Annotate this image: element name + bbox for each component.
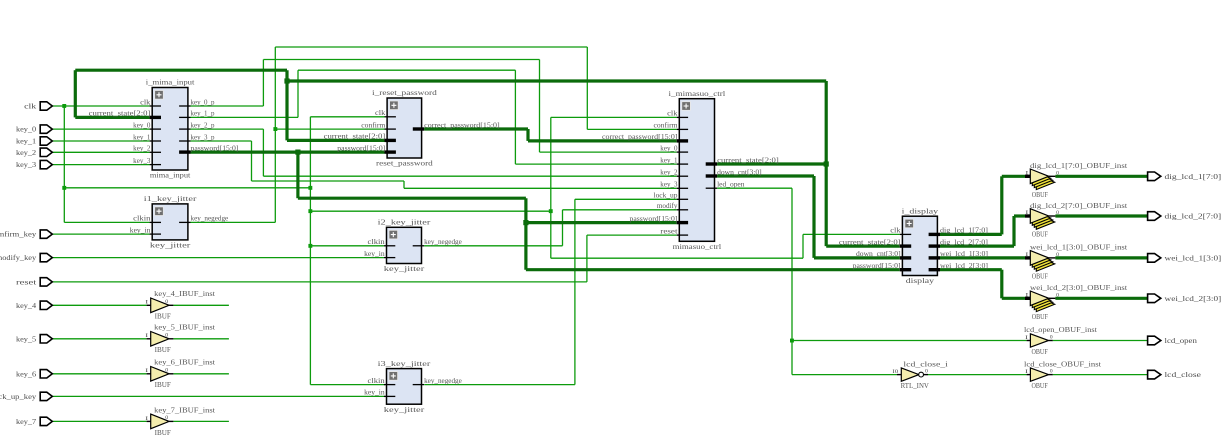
input port key_6 — [16, 369, 52, 378]
wire down_cnt from mimasuo — [717, 174, 814, 177]
svg-text:i1_key_jitter: i1_key_jitter — [144, 194, 197, 203]
wire key_2_p from mima_input — [191, 128, 264, 130]
svg-text:OBUF: OBUF — [1032, 190, 1049, 199]
svg-text:key_6_IBUF_inst: key_6_IBUF_inst — [154, 358, 216, 367]
junction clk x=310 y=187.8 — [308, 186, 312, 190]
wire led_open to lcd_open OBUF — [792, 340, 1027, 342]
wire key_0_p riser — [262, 60, 264, 107]
wire correct_password jog — [526, 129, 529, 141]
junction clk x=64 y=187.8 — [62, 186, 66, 190]
wire dig_lcd_2 OBUF to port — [1055, 214, 1147, 217]
svg-text:key_0: key_0 — [16, 125, 36, 134]
wire lcd_close_i out to OBUF — [928, 374, 1027, 376]
wire lock_up from i3.key_negedge — [424, 384, 575, 386]
pin i_mimasuo_ctrl.key_3 — [660, 181, 688, 189]
wire key_3_p from mima_input — [191, 140, 252, 142]
wire confirm_key to i1.key_in — [52, 233, 149, 235]
svg-text:clkin: clkin — [368, 377, 386, 385]
module i2_key_jitter (key_jitter) — [378, 218, 431, 274]
wire current_state from mimasuo — [717, 162, 826, 165]
wire current_state drop x=826 — [825, 81, 828, 246]
wire current_state riser x=75 — [74, 70, 77, 117]
wire dig_lcd_2 from display — [940, 245, 1014, 248]
pin i2_key_jitter.key_negedge — [413, 238, 462, 246]
buffer dig_lcd_2_OBUF (OBUF x8/x4 stack) — [1025, 201, 1128, 239]
svg-text:dig_lcd_1[7:0]: dig_lcd_1[7:0] — [940, 227, 988, 235]
svg-text:correct_password[15:0]: correct_password[15:0] — [602, 133, 678, 141]
svg-text:wei_lcd_2[3:0]_OBUF_inst: wei_lcd_2[3:0]_OBUF_inst — [1030, 283, 1128, 292]
wire clk riser at x=64 — [63, 106, 65, 222]
svg-text:confirm: confirm — [361, 121, 386, 129]
svg-text:0: 0 — [165, 367, 168, 373]
svg-text:clk: clk — [375, 109, 386, 117]
buffer lcd_open_OBUF (OBUF) — [1024, 325, 1098, 356]
svg-text:I0: I0 — [892, 369, 898, 375]
pin i_mimasuo_ctrl.lock_up — [654, 192, 689, 200]
wire modify to mimasuo.modify — [563, 209, 677, 211]
pin i_mima_input.key_1 — [133, 133, 161, 141]
wire current_state to display — [826, 245, 900, 248]
wire key port to IBUF — [52, 338, 146, 340]
buffer key_4_IBUF_inst (IBUF) — [145, 289, 216, 321]
wire password mima_input to reset_password — [191, 151, 385, 154]
wire clk riser at x=551 — [550, 117, 552, 258]
wire modify from i2.key_negedge — [424, 245, 562, 247]
svg-text:key_2_p: key_2_p — [191, 121, 215, 129]
wire password run y=198 — [298, 197, 526, 200]
wire wei_lcd_2 from display — [940, 268, 1002, 271]
svg-text:key_2: key_2 — [16, 148, 36, 157]
pin i_reset_password.password[15:0] — [337, 144, 396, 152]
svg-text:0: 0 — [165, 332, 168, 338]
wire key_0_p from mima_input — [191, 105, 264, 107]
wire key_1_p to mimasuo.key_1 — [515, 163, 676, 165]
pin i_reset_password.correct_password[15:0] — [413, 121, 500, 129]
junction clk x=310 y=245.8 — [308, 244, 312, 248]
svg-text:clk: clk — [667, 110, 678, 118]
wire current_state to mima_input — [75, 116, 149, 119]
wire down_cnt to display — [814, 256, 900, 259]
svg-text:I: I — [1025, 292, 1028, 298]
svg-text:clk: clk — [140, 98, 151, 106]
svg-text:current_state[2:0]: current_state[2:0] — [324, 133, 386, 141]
wire key_3_p run — [252, 180, 405, 182]
wire key_3 port to mima_input — [52, 164, 149, 166]
wire current_state run B y=81 — [287, 79, 826, 82]
svg-text:key_3: key_3 — [660, 181, 678, 189]
svg-text:key_7_IBUF_inst: key_7_IBUF_inst — [154, 405, 216, 414]
wire clk branch y=258.2 — [551, 257, 803, 259]
buffer wei_lcd_2_OBUF (OBUF x8/x4 stack) — [1025, 283, 1128, 321]
pin i_mimasuo_ctrl.current_state[2:0] — [706, 156, 779, 164]
wire wei_lcd_1 from display — [940, 256, 1025, 259]
junction clk at port — [62, 104, 66, 108]
module i3_key_jitter (key_jitter) — [378, 359, 431, 414]
svg-text:confirm: confirm — [654, 122, 679, 130]
svg-text:key_in: key_in — [364, 389, 385, 397]
svg-text:wei_lcd_2[3:0]: wei_lcd_2[3:0] — [1165, 294, 1222, 303]
svg-text:I: I — [1025, 170, 1028, 176]
svg-text:clkin: clkin — [368, 238, 386, 246]
svg-text:key_0: key_0 — [133, 121, 151, 129]
input port confirm_key — [0, 230, 52, 239]
svg-text:key_1: key_1 — [660, 156, 678, 164]
pin i_mimasuo_ctrl.key_2 — [660, 169, 688, 177]
pin i2_key_jitter.clkin — [368, 238, 396, 246]
svg-text:i_display: i_display — [902, 206, 939, 215]
wire lcd_close OBUF to port — [1053, 374, 1148, 376]
wire key port to IBUF — [52, 420, 146, 422]
wire correct_password to mimasuo — [528, 139, 677, 142]
svg-text:key_4_IBUF_inst: key_4_IBUF_inst — [154, 289, 216, 298]
svg-text:key_0: key_0 — [660, 144, 678, 152]
svg-text:key_5_IBUF_inst: key_5_IBUF_inst — [154, 323, 216, 332]
wire key_1_p top run — [298, 69, 515, 71]
svg-text:wei_lcd_1[3:0]_OBUF_inst: wei_lcd_1[3:0]_OBUF_inst — [1030, 243, 1128, 252]
svg-text:0: 0 — [1056, 171, 1059, 177]
svg-text:I: I — [1025, 335, 1028, 341]
svg-text:wei_lcd_2[3:0]: wei_lcd_2[3:0] — [940, 262, 988, 270]
svg-text:lcd_close: lcd_close — [1165, 370, 1202, 379]
input port modify_key — [0, 253, 52, 262]
wire key_2_p drop — [262, 129, 264, 176]
pin i_mima_input.key_3 — [133, 157, 161, 165]
svg-text:dig_lcd_1[7:0]: dig_lcd_1[7:0] — [1165, 172, 1222, 181]
svg-text:correct_password[15:0]: correct_password[15:0] — [424, 121, 500, 129]
input port clk — [24, 102, 52, 111]
svg-text:0: 0 — [1050, 334, 1053, 340]
buffer key_5_IBUF_inst (IBUF) — [145, 323, 216, 355]
svg-text:dig_lcd_1[7:0]_OBUF_inst: dig_lcd_1[7:0]_OBUF_inst — [1030, 161, 1128, 170]
svg-text:reset: reset — [660, 227, 677, 235]
pin i3_key_jitter.clkin — [368, 377, 396, 385]
pin i_reset_password.current_state[2:0] — [324, 133, 396, 141]
junction confirm x=275 y=129.1 — [273, 127, 277, 131]
junction password x=526 y=222.6 — [523, 220, 528, 225]
pin i1_key_jitter.key_in — [130, 226, 161, 234]
wire dig_lcd_1 from display — [940, 233, 1002, 236]
pin i3_key_jitter.key_in — [364, 389, 395, 397]
input port key_0 — [16, 125, 52, 134]
wire dig_lcd_2 riser — [1012, 216, 1015, 246]
input port key_4 — [16, 301, 52, 310]
wire key_2 port to mima_input — [52, 151, 149, 153]
svg-text:i_reset_password: i_reset_password — [372, 88, 437, 97]
pin i2_key_jitter.key_in — [364, 250, 395, 258]
wire key_0_p top run — [263, 59, 539, 61]
wire lcd_open OBUF to port — [1053, 340, 1148, 342]
wire key port to IBUF — [52, 373, 146, 375]
wire wei_lcd_2 OBUF to port — [1055, 297, 1147, 300]
svg-text:led_open: led_open — [717, 181, 745, 189]
wire clk branch y=211.2 — [310, 210, 550, 212]
wire IBUF out stub — [173, 304, 229, 306]
pin i_mima_input.current_state[2:0] — [89, 110, 161, 118]
svg-text:clk: clk — [24, 102, 36, 111]
svg-text:down_cnt[3:0]: down_cnt[3:0] — [717, 168, 762, 176]
junction password x=298 y=152.1 — [295, 150, 300, 155]
input port lock_up_key — [0, 392, 52, 401]
svg-text:current_state[2:0]: current_state[2:0] — [717, 156, 779, 164]
svg-text:confirm_key: confirm_key — [0, 230, 36, 239]
pin i_mima_input.clk — [140, 98, 161, 106]
input port key_1 — [16, 137, 52, 146]
input port key_2 — [16, 148, 52, 157]
svg-text:key_2: key_2 — [660, 169, 678, 177]
junction current_state x=287 y=81 — [284, 78, 289, 83]
wire dig_lcd_1 to OBUF — [1002, 175, 1025, 178]
pin i_display.wei_lcd_2[3:0] — [929, 262, 988, 270]
wire password drop x=526 — [524, 198, 527, 270]
svg-text:I: I — [1025, 210, 1028, 216]
pin i1_key_jitter.key_negedge — [179, 215, 228, 223]
wire wei_lcd_2 to OBUF — [1002, 297, 1025, 300]
wire down_cnt drop x=814 — [812, 176, 815, 258]
junction current_state x=826 y=164 — [824, 161, 829, 166]
svg-text:i_mimasuo_ctrl: i_mimasuo_ctrl — [669, 89, 727, 98]
svg-text:i_mima_input: i_mima_input — [146, 78, 196, 87]
svg-text:lcd_open: lcd_open — [1165, 336, 1197, 345]
wire key_1_p drop — [514, 70, 516, 164]
pin i_mima_input.key_1_p — [179, 110, 215, 118]
wire lock_up to mimasuo.lock_up — [575, 198, 677, 200]
svg-text:password[15:0]: password[15:0] — [337, 144, 385, 152]
input port key_3 — [16, 160, 52, 169]
svg-text:password[15:0]: password[15:0] — [630, 215, 678, 223]
wire password to mimasuo — [526, 221, 677, 224]
wire IBUF out stub — [173, 373, 229, 375]
svg-text:I: I — [145, 333, 148, 339]
wire IBUF out stub — [173, 338, 229, 340]
svg-text:0: 0 — [1050, 368, 1053, 374]
svg-text:key_1_p: key_1_p — [191, 110, 215, 118]
wire reset from port — [52, 281, 587, 283]
wire dig_lcd_1 riser — [1000, 176, 1003, 234]
svg-text:reset: reset — [16, 278, 37, 287]
svg-text:modify: modify — [657, 202, 678, 210]
svg-text:IBUF: IBUF — [155, 312, 172, 321]
module i_reset_password (reset_password) — [372, 88, 437, 167]
svg-text:clk: clk — [890, 227, 901, 235]
wire password drop x=298 — [296, 152, 299, 198]
svg-text:I: I — [145, 300, 148, 306]
wire IBUF out stub — [173, 420, 229, 422]
wire led_open riser at x=792 — [791, 188, 793, 374]
svg-text:wei_lcd_1[3:0]: wei_lcd_1[3:0] — [1165, 254, 1222, 263]
wire led_open to lcd_close_i — [792, 374, 897, 376]
svg-text:password[15:0]: password[15:0] — [853, 262, 901, 270]
svg-text:IBUF: IBUF — [155, 345, 172, 354]
svg-text:key_negedge: key_negedge — [191, 215, 229, 223]
pin i_reset_password.confirm — [361, 121, 396, 129]
wire dig_lcd_1 OBUF to port — [1055, 175, 1147, 178]
wire lock_up riser at x=575 — [574, 199, 576, 384]
pin i_mima_input.key_2 — [133, 145, 161, 153]
svg-text:lcd_close_OBUF_inst: lcd_close_OBUF_inst — [1024, 359, 1102, 368]
svg-text:key_2: key_2 — [133, 145, 151, 153]
wire modify_key to i2.key_in — [52, 257, 384, 259]
wire key_1_p riser — [297, 70, 299, 117]
pin i_reset_password.clk — [375, 109, 396, 117]
svg-text:key_in: key_in — [364, 250, 385, 258]
svg-text:0: 0 — [925, 368, 928, 374]
svg-text:dig_lcd_2[7:0]_OBUF_inst: dig_lcd_2[7:0]_OBUF_inst — [1030, 201, 1128, 210]
wire confirm riser at x=275 — [274, 47, 276, 222]
svg-text:i2_key_jitter: i2_key_jitter — [378, 218, 431, 227]
output port lcd_close — [1148, 370, 1202, 379]
svg-text:key_3_p: key_3_p — [191, 133, 215, 141]
svg-text:OBUF: OBUF — [1032, 381, 1049, 390]
wire confirm drop at x=587 — [586, 47, 588, 129]
svg-text:lcd_close_i: lcd_close_i — [903, 359, 949, 368]
svg-text:wei_lcd_1[3:0]: wei_lcd_1[3:0] — [940, 250, 988, 258]
pin i_mima_input.key_0 — [133, 121, 161, 129]
wire current_state top run A — [75, 69, 287, 72]
svg-text:I: I — [1025, 369, 1028, 375]
svg-text:lock_up_key: lock_up_key — [0, 392, 36, 401]
svg-text:key_3: key_3 — [16, 160, 36, 169]
svg-text:key_1: key_1 — [133, 133, 151, 141]
wire correct_password from reset_password — [424, 127, 528, 130]
wire confirm branch to reset_password — [275, 128, 384, 130]
pin i_display.dig_lcd_2[7:0] — [929, 238, 988, 246]
svg-text:lock_up: lock_up — [654, 192, 679, 200]
svg-text:OBUF: OBUF — [1032, 347, 1049, 356]
pin i1_key_jitter.clkin — [133, 215, 161, 223]
wire wei_lcd_2 drop — [1000, 270, 1003, 299]
pin i_mimasuo_ctrl.key_1 — [660, 156, 688, 164]
pin i_mimasuo_ctrl.clk — [667, 110, 688, 118]
junction led_open x=792 y=340.5 — [790, 339, 794, 343]
svg-text:key_negedge: key_negedge — [424, 238, 462, 246]
svg-text:key_3: key_3 — [133, 157, 151, 165]
output port dig_lcd_1[7:0] — [1148, 172, 1222, 181]
output port wei_lcd_1[3:0] — [1148, 254, 1222, 263]
input port key_5 — [16, 334, 52, 343]
pin i_mimasuo_ctrl.led_open — [706, 181, 745, 189]
wire key_3_p drop — [251, 141, 253, 181]
svg-text:key_jitter: key_jitter — [384, 405, 425, 414]
wire key_0_p drop — [539, 60, 541, 153]
svg-text:dig_lcd_2[7:0]: dig_lcd_2[7:0] — [1165, 212, 1222, 221]
pin i3_key_jitter.key_negedge — [413, 377, 462, 385]
svg-text:key_1: key_1 — [16, 137, 36, 146]
buffer lcd_close_OBUF (OBUF) — [1024, 359, 1102, 390]
module i_display (display) — [902, 206, 939, 285]
module i_mima_input (mima_input) — [146, 78, 196, 180]
wire password to display — [526, 268, 900, 271]
svg-text:password[15:0]: password[15:0] — [191, 144, 239, 152]
wire key port to IBUF — [52, 304, 146, 306]
wire clk to i3.clkin — [310, 384, 385, 386]
svg-text:key_negedge: key_negedge — [424, 377, 462, 385]
svg-text:clkin: clkin — [133, 215, 151, 223]
buffer dig_lcd_1_OBUF (OBUF x8/x4 stack) — [1025, 161, 1128, 199]
svg-text:OBUF: OBUF — [1032, 272, 1049, 281]
svg-text:mima_input: mima_input — [150, 171, 191, 180]
wire key_1 port to mima_input — [52, 140, 149, 142]
pin i_mima_input.key_3_p — [179, 133, 215, 141]
wire lock_up_key to i3.key_in — [52, 395, 385, 397]
svg-text:OBUF: OBUF — [1032, 312, 1049, 321]
junction clk x=551 y=211.2 — [549, 209, 553, 213]
svg-text:I: I — [145, 368, 148, 374]
svg-text:I: I — [1025, 252, 1028, 258]
wire key_2_p to mimasuo.key_2 — [263, 175, 676, 177]
svg-text:OBUF: OBUF — [1032, 230, 1049, 239]
wire confirm top run — [275, 46, 587, 48]
svg-text:i3_key_jitter: i3_key_jitter — [378, 359, 431, 368]
pin i_mimasuo_ctrl.key_0 — [660, 144, 688, 152]
output port lcd_open — [1148, 336, 1197, 345]
svg-text:RTL_INV: RTL_INV — [901, 381, 930, 390]
wire current_state drop x=287 — [285, 70, 288, 140]
wire key_0 port to mima_input — [52, 128, 149, 130]
wire clk to mimasuo.clk — [551, 116, 677, 118]
module i1_key_jitter (key_jitter) — [144, 194, 197, 249]
wire key_1_p from mima_input — [191, 116, 299, 118]
wire key_3_p to mimasuo.key_3 — [404, 187, 677, 189]
wire clk to i1.clkin — [64, 221, 149, 223]
svg-text:down_cnt[3:0]: down_cnt[3:0] — [856, 250, 901, 258]
svg-text:key_in: key_in — [130, 226, 151, 234]
pin i_mimasuo_ctrl.down_cnt[3:0] — [706, 168, 762, 176]
input port key_7 — [16, 417, 52, 426]
module i_mimasuo_ctrl (mimasuo_ctrl) — [669, 89, 727, 251]
wire clk to display.clk — [803, 233, 900, 235]
input port reset — [16, 278, 52, 287]
pin i_display.wei_lcd_1[3:0] — [929, 250, 988, 258]
wire confirm to mimasuo.confirm — [587, 128, 676, 130]
pin i_mima_input.password[15:0] — [179, 144, 238, 152]
wire modify riser at x=562 — [562, 210, 564, 246]
svg-text:display: display — [906, 276, 934, 285]
wire clk riser at x=803 — [802, 234, 804, 258]
svg-text:0: 0 — [165, 415, 168, 421]
pin i_mima_input.key_2_p — [179, 121, 215, 129]
wire key_3_p jog down — [403, 181, 405, 188]
svg-text:key_jitter: key_jitter — [384, 264, 425, 273]
output port wei_lcd_2[3:0] — [1148, 294, 1222, 303]
inverter lcd_close_i (RTL_INV) — [892, 359, 949, 390]
wire clk branch y=187.8 — [64, 187, 310, 189]
buffer key_6_IBUF_inst (IBUF) — [145, 358, 216, 390]
pin i_display.current_state[2:0] — [839, 238, 911, 246]
svg-text:reset_password: reset_password — [376, 159, 433, 168]
svg-text:I: I — [145, 416, 148, 422]
pin i_mimasuo_ctrl.confirm — [654, 122, 689, 130]
pin i_mimasuo_ctrl.modify — [657, 202, 688, 210]
svg-text:modify_key: modify_key — [0, 253, 36, 262]
buffer key_7_IBUF_inst (IBUF) — [145, 405, 216, 437]
wire key_0_p to mimasuo.key_0 — [540, 151, 677, 153]
svg-text:key_0_p: key_0_p — [191, 98, 215, 106]
svg-text:key_5: key_5 — [16, 334, 36, 343]
wire reset riser at x=587 — [586, 235, 588, 282]
svg-text:0: 0 — [165, 299, 168, 305]
svg-text:0: 0 — [1056, 252, 1059, 258]
pin i_mimasuo_ctrl.password[15:0] — [630, 215, 689, 223]
wire wei_lcd_1 OBUF to port — [1055, 256, 1147, 259]
svg-text:lcd_open_OBUF_inst: lcd_open_OBUF_inst — [1024, 325, 1098, 334]
junction clk x=310 y=211.2 — [308, 209, 312, 213]
svg-text:IBUF: IBUF — [155, 380, 172, 389]
pin i_display.clk — [890, 227, 911, 235]
svg-text:key_4: key_4 — [16, 301, 36, 310]
svg-text:dig_lcd_2[7:0]: dig_lcd_2[7:0] — [940, 238, 988, 246]
svg-text:IBUF: IBUF — [155, 428, 172, 437]
wire dig_lcd_2 to OBUF — [1014, 214, 1025, 217]
